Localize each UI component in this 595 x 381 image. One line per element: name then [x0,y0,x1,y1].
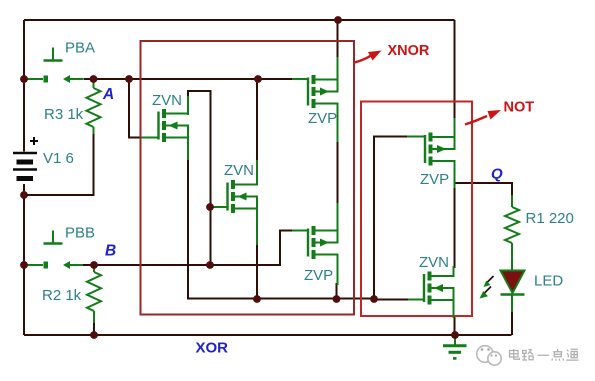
svg-text:ZVN: ZVN [152,92,182,109]
svg-text:R1 220: R1 220 [526,210,574,227]
svg-text:V1 6: V1 6 [43,150,74,167]
svg-text:PBB: PBB [65,225,95,242]
svg-text:XOR: XOR [196,340,229,357]
svg-text:NOT: NOT [504,100,535,116]
svg-text:ZVP: ZVP [420,171,449,188]
svg-text:XNOR: XNOR [388,43,430,59]
svg-text:PBA: PBA [65,40,95,57]
svg-text:Q: Q [491,166,503,183]
svg-text:LED: LED [534,273,563,290]
svg-text:A: A [102,86,114,103]
svg-text:B: B [105,243,116,260]
svg-text:ZVP: ZVP [308,110,337,127]
svg-text:R3 1k: R3 1k [44,106,84,123]
svg-text:ZVN: ZVN [419,254,449,271]
svg-text:ZVP: ZVP [304,267,333,284]
svg-text:R2 1k: R2 1k [42,287,82,304]
svg-text:ZVN: ZVN [224,162,254,179]
